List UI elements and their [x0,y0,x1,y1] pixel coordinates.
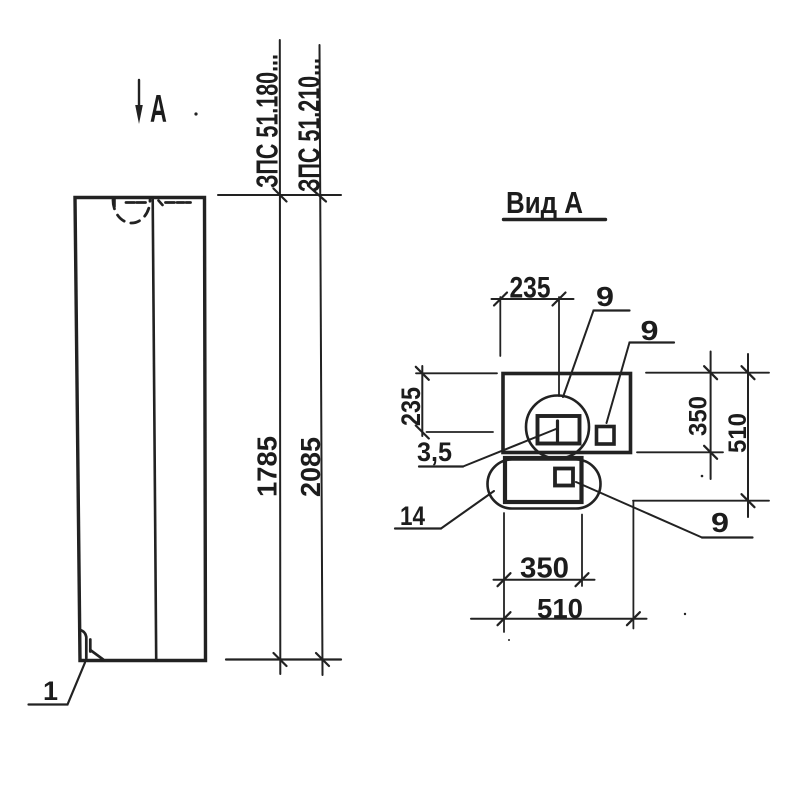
section arrow A shaft [138,80,140,112]
svg-text:510: 510 [537,593,583,624]
scan speck dot [194,112,197,115]
left 235 dimension line [421,366,423,436]
leader to label 1 [29,663,86,705]
tick marks [274,189,287,202]
top 235 extension lines [499,297,501,356]
detail: lower plate rectangle [505,458,582,502]
top extension line of vertical dimensions [218,194,341,196]
detail: stadium outline 14 [488,460,601,509]
svg-text:510: 510 [724,413,752,453]
title underline [504,218,606,221]
svg-text:350: 350 [685,396,713,436]
bottom extension verticals [503,513,505,632]
panel outline [75,198,206,661]
detail: anchor window rect [538,416,580,444]
svg-text:350: 350 [520,553,569,585]
dimension line 1785 / ЗПС 51.180 [279,40,282,674]
right 350 dimension line [710,352,712,480]
svg-text:3,5: 3,5 [417,437,452,467]
left 235 extension lines [416,372,497,374]
left 235 ticks [416,367,429,380]
detail: anchor middle bar [556,421,559,441]
detail: mounting plate rectangle [503,374,631,453]
right extension lines [646,372,769,374]
svg-text:Вид А: Вид А [506,185,583,220]
hidden edge dashes along top [126,201,135,204]
bottom extension line of vertical dimensions [226,658,341,660]
section arrow A head [135,105,143,124]
corner console detail 1 [81,630,87,658]
svg-text:А: А [150,87,167,131]
top 235 dimension line [492,298,574,300]
svg-text:235: 235 [510,272,551,305]
svg-text:1785: 1785 [252,436,283,497]
svg-text:9: 9 [596,281,614,312]
right 510 dimension line [747,354,749,517]
detail: circle around anchor [526,396,589,459]
svg-text:9: 9 [711,507,729,538]
detail: small square lower (9) [555,469,573,486]
svg-text:9: 9 [641,315,659,346]
svg-text:14: 14 [400,501,425,531]
hidden lifting loop dashed arc [113,200,150,223]
panel joint line [153,199,157,661]
hidden edge dash vertical left [113,200,116,207]
svg-text:ЗПС 51.180...: ЗПС 51.180... [250,54,285,188]
svg-text:235: 235 [396,387,426,426]
svg-text:2085: 2085 [295,437,326,497]
bottom 350 dimension line [494,579,595,581]
svg-text:1: 1 [43,676,58,706]
svg-text:ЗПС 51.210...: ЗПС 51.210... [292,58,327,192]
right ticks [704,366,717,379]
dimension line 2085 / ЗПС 51.210 [320,45,323,675]
bottom 510 dimension line [471,618,647,620]
detail: small square top (9) [597,427,615,445]
scan specks [684,613,686,615]
top 235 ticks [494,293,507,306]
